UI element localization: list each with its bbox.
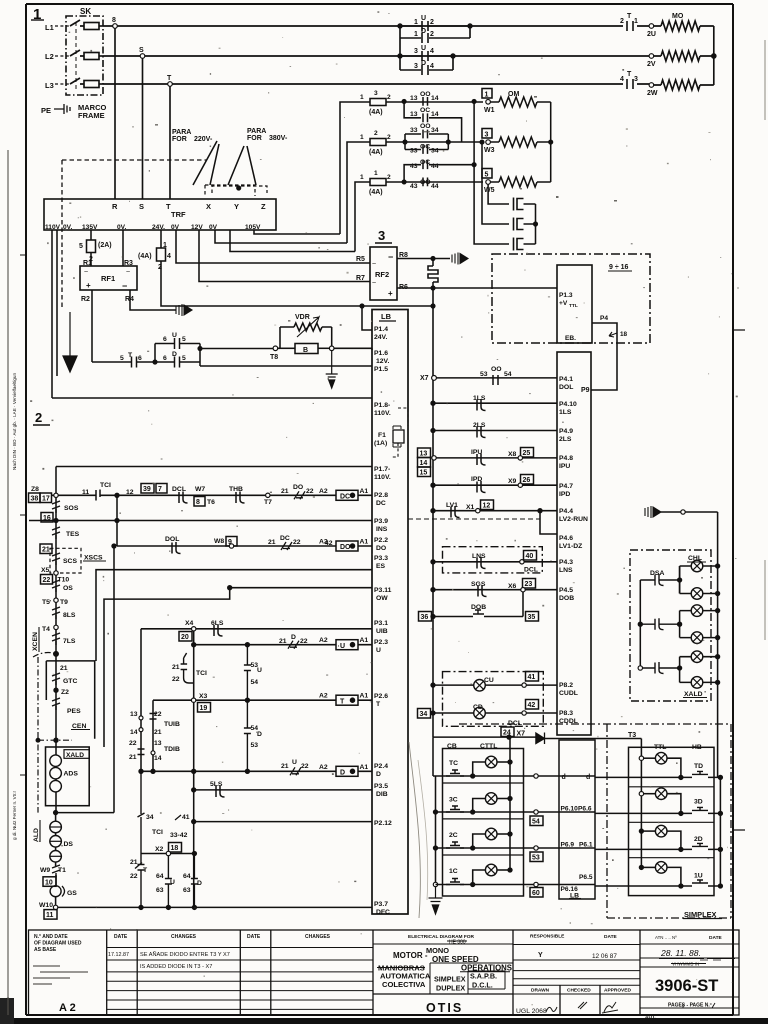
- svg-text:XCEN: XCEN: [32, 632, 39, 651]
- svg-text:54: 54: [251, 679, 259, 686]
- svg-text:64: 64: [156, 873, 164, 880]
- bus W5 down: [488, 184, 509, 204]
- contact GTC: [52, 673, 60, 685]
- svg-text:SK: SK: [80, 7, 91, 16]
- SK switch pole L1: [70, 20, 84, 26]
- right cells: [640, 944, 739, 1008]
- svg-text:34: 34: [431, 127, 439, 134]
- svg-text:6: 6: [163, 336, 167, 343]
- fuse F1 box: [393, 430, 404, 443]
- svg-text:Nach DIN · BO · Aut gb. · LAE: Nach DIN · BO · Aut gb. · LAE · Vervielf…: [12, 373, 17, 470]
- svg-text:1C: 1C: [449, 868, 458, 875]
- resistor OM row2: [490, 137, 550, 147]
- svg-text:53: 53: [480, 371, 488, 378]
- svg-text:Y: Y: [538, 952, 543, 959]
- drop DO aux: [113, 546, 115, 813]
- svg-text:9 ÷ 16: 9 ÷ 16: [609, 264, 629, 271]
- svg-text:CHECKED: CHECKED: [567, 988, 591, 994]
- svg-text:3D: 3D: [694, 799, 703, 806]
- svg-text:DC: DC: [376, 500, 386, 507]
- svg-text:TD: TD: [694, 763, 703, 770]
- indicator DS circles: [50, 821, 62, 833]
- svg-text:39: 39: [143, 486, 151, 493]
- svg-text:P4.4: P4.4: [559, 508, 573, 515]
- wire R8: [397, 258, 450, 260]
- row IPU: [432, 456, 436, 460]
- boxed 22 T10: [41, 575, 53, 585]
- svg-text:2D: 2D: [694, 836, 703, 843]
- row DOB: [419, 612, 432, 622]
- svg-text:(1A): (1A): [374, 440, 387, 447]
- svg-text:P4.3: P4.3: [559, 559, 573, 566]
- branch to P1.4: [362, 306, 372, 330]
- svg-text:X5: X5: [41, 567, 50, 574]
- svg-text:W7: W7: [195, 486, 205, 493]
- svg-text:TES: TES: [66, 531, 80, 538]
- svg-text:24V.: 24V.: [152, 224, 165, 231]
- middle connector LB box: [559, 740, 595, 899]
- node 2W: [649, 83, 654, 88]
- row D wire: [141, 770, 372, 772]
- svg-text:DOL: DOL: [559, 384, 573, 391]
- svg-text:SCS: SCS: [63, 558, 77, 565]
- svg-text:R7: R7: [356, 275, 365, 282]
- svg-text:(2A): (2A): [98, 242, 112, 249]
- svg-text:SIMPLEX: SIMPLEX: [684, 910, 717, 919]
- svg-text:LNS: LNS: [472, 553, 486, 560]
- svg-text:IS ADDED DIODE IN T3 - X7: IS ADDED DIODE IN T3 - X7: [140, 964, 212, 970]
- resistor OM row3: [490, 177, 550, 187]
- svg-text:TCI: TCI: [100, 482, 111, 489]
- svg-text:P1.4: P1.4: [374, 326, 388, 333]
- row UIB wire: [141, 629, 372, 772]
- svg-text:2U: 2U: [647, 31, 656, 38]
- bottom feed wire: [433, 737, 641, 738]
- title block outer: [29, 930, 740, 1015]
- svg-text:+: +: [86, 281, 91, 290]
- svg-text:P4: P4: [600, 315, 608, 322]
- svg-text:IPU: IPU: [559, 463, 570, 470]
- svg-text:54: 54: [532, 819, 540, 826]
- svg-text:60: 60: [532, 890, 540, 897]
- wire T down to TRF: [169, 86, 171, 199]
- svg-text:FRAME: FRAME: [78, 111, 105, 120]
- wire 135V to fuse 5: [90, 230, 92, 240]
- svg-text:SIMPLEX: SIMPLEX: [434, 975, 466, 984]
- lamp CHL2: [691, 588, 703, 600]
- svg-text:14: 14: [154, 755, 162, 762]
- diode T3-X7: [536, 733, 545, 745]
- svg-text:2LS: 2LS: [559, 436, 572, 443]
- svg-text:d: d: [562, 774, 566, 781]
- svg-text:W9: W9: [40, 867, 50, 874]
- svg-text:R: R: [112, 202, 118, 211]
- svg-text:22: 22: [306, 488, 314, 495]
- svg-text:2: 2: [430, 19, 434, 26]
- svg-text:26: 26: [523, 477, 531, 484]
- junction to GTC: [54, 652, 58, 656]
- svg-text:38: 38: [31, 496, 39, 503]
- svg-text:LV2-RUN: LV2-RUN: [559, 516, 588, 523]
- panel TTL box: [629, 747, 715, 895]
- svg-text:Z8: Z8: [31, 486, 39, 493]
- wire 0V to R5: [176, 230, 370, 263]
- contact TES: [52, 527, 60, 539]
- connector bus: [535, 204, 537, 244]
- chain through: [55, 749, 57, 813]
- F1 dashed link: [392, 408, 408, 457]
- svg-text:1: 1: [485, 92, 489, 99]
- svg-text:22: 22: [154, 711, 162, 718]
- svg-text:17: 17: [42, 496, 50, 503]
- svg-text:54: 54: [504, 371, 512, 378]
- svg-text:DC: DC: [280, 535, 290, 542]
- dash-dot CEN line: [38, 739, 72, 741]
- SK switch pole L2: [70, 50, 84, 56]
- svg-text:INS: INS: [376, 526, 388, 533]
- svg-text:P9: P9: [581, 387, 590, 394]
- svg-text:EB.: EB.: [565, 335, 576, 342]
- svg-text:A1: A1: [360, 693, 369, 700]
- dashed option wire 220V: [62, 159, 207, 161]
- boxed 54: [530, 816, 543, 826]
- SK fuse L3: [84, 81, 99, 88]
- svg-text:T6: T6: [207, 499, 215, 506]
- svg-text:A2: A2: [319, 539, 328, 546]
- svg-text:1LS: 1LS: [473, 395, 486, 402]
- svg-text:34: 34: [420, 711, 428, 718]
- row CD lamp: [418, 709, 431, 719]
- L3 lead-in dashes: [55, 83, 70, 85]
- svg-text:D: D: [340, 770, 345, 777]
- contact SOS: [52, 501, 60, 513]
- svg-text:21: 21: [130, 859, 138, 866]
- bus W1 down: [474, 101, 509, 244]
- row ES wire: [96, 570, 372, 661]
- svg-text:22: 22: [130, 873, 138, 880]
- boxed 13 14 15: [418, 448, 431, 458]
- svg-text:AS BASE: AS BASE: [34, 947, 57, 953]
- svg-text:APPROVED: APPROVED: [604, 988, 631, 994]
- svg-text:DO: DO: [293, 484, 303, 491]
- svg-text:2: 2: [430, 31, 434, 38]
- boxed 16: [41, 513, 53, 523]
- svg-text:DC: DC: [340, 494, 350, 501]
- svg-text:LV1-DZ: LV1-DZ: [559, 543, 582, 550]
- svg-text:P4.5: P4.5: [559, 587, 573, 594]
- svg-text:U: U: [257, 667, 262, 674]
- node T7: [266, 493, 270, 497]
- svg-text:13: 13: [410, 111, 418, 118]
- svg-text:P4.8: P4.8: [559, 455, 573, 462]
- svg-text:P3.3: P3.3: [374, 555, 388, 562]
- svg-text:ATN .. .. Nº: ATN .. .. Nº: [655, 935, 677, 940]
- fuse 5 (2A): [87, 240, 96, 253]
- svg-text:63: 63: [156, 887, 164, 894]
- svg-text:6: 6: [163, 355, 167, 362]
- svg-text:FOR: FOR: [247, 135, 262, 142]
- svg-text:1: 1: [360, 94, 364, 101]
- svg-text:43: 43: [410, 183, 418, 190]
- wire R6 to EB: [397, 287, 557, 289]
- svg-text:0V: 0V: [171, 224, 180, 231]
- svg-text:P2.4: P2.4: [374, 763, 388, 770]
- svg-text:12: 12: [126, 489, 134, 496]
- svg-text:12 06 87: 12 06 87: [592, 953, 617, 960]
- svg-text:22: 22: [172, 676, 180, 683]
- svg-text:UIB: UIB: [376, 628, 388, 635]
- svg-text:P8.2: P8.2: [559, 682, 573, 689]
- wire to P1.6: [334, 348, 372, 350]
- bus DC-DO left: [116, 495, 118, 546]
- svg-text:3: 3: [378, 228, 385, 243]
- svg-text:OS: OS: [63, 585, 73, 592]
- svg-text:U: U: [172, 332, 177, 339]
- dash-dot box XALD: [630, 550, 711, 701]
- svg-text:DATE: DATE: [114, 934, 128, 940]
- svg-text:P1.8-: P1.8-: [374, 402, 390, 409]
- svg-text:HE 300: HE 300: [449, 940, 466, 946]
- wire R4 to chassis: [130, 290, 176, 310]
- svg-text:MOTOR -: MOTOR -: [393, 951, 428, 960]
- node W3: [482, 129, 492, 139]
- main vertical bus X7: [432, 288, 434, 737]
- svg-text:TCI: TCI: [196, 670, 207, 677]
- dash-dot box CU/CD: [443, 672, 544, 727]
- svg-text:21: 21: [60, 665, 68, 672]
- wire P1.7 feed: [56, 467, 372, 494]
- svg-text:33: 33: [410, 148, 418, 155]
- svg-text:T9: T9: [60, 599, 68, 606]
- riser to fuse3: [355, 182, 366, 252]
- svg-text:A2: A2: [319, 637, 328, 644]
- svg-text:DOL: DOL: [165, 536, 179, 543]
- svg-text:13: 13: [410, 95, 418, 102]
- svg-text:3906-ST: 3906-ST: [655, 977, 718, 995]
- svg-text:X4: X4: [185, 620, 194, 627]
- svg-text:X9: X9: [508, 478, 517, 485]
- svg-text:5: 5: [120, 355, 124, 362]
- wire to P1.5: [200, 365, 372, 367]
- svg-text:A2: A2: [319, 764, 328, 771]
- svg-text:17.12.87: 17.12.87: [108, 952, 129, 958]
- svg-text:DFC: DFC: [376, 909, 390, 916]
- svg-text:U: U: [376, 647, 381, 654]
- motor star point wire: [713, 26, 715, 85]
- contact 7LS: [52, 633, 60, 645]
- svg-text:22: 22: [43, 577, 51, 584]
- svg-text:OM: OM: [508, 91, 519, 98]
- svg-text:U: U: [340, 643, 345, 650]
- svg-text:22: 22: [300, 638, 308, 645]
- svg-text:24V.: 24V.: [374, 334, 387, 341]
- svg-text:220V-: 220V-: [194, 136, 213, 143]
- svg-text:d: d: [586, 774, 590, 781]
- rectifier RF1 box: [80, 266, 137, 290]
- boxed 38 17: [29, 493, 41, 503]
- node 2U: [649, 24, 654, 29]
- svg-text:1: 1: [414, 19, 418, 26]
- svg-text:4: 4: [167, 253, 171, 260]
- svg-text:A1: A1: [360, 488, 369, 495]
- row LNS: [431, 560, 435, 564]
- riser to fuse2: [347, 142, 366, 243]
- svg-text:X3: X3: [199, 693, 208, 700]
- svg-text:110V: 110V: [45, 224, 61, 231]
- svg-text:W8: W8: [214, 538, 224, 545]
- svg-text:IPD: IPD: [559, 491, 570, 498]
- svg-text:TUIB: TUIB: [164, 721, 180, 728]
- svg-text:34: 34: [431, 148, 439, 155]
- wire 105V step: [254, 230, 340, 234]
- wire 0V down: [56, 230, 58, 376]
- svg-text:22: 22: [129, 740, 137, 747]
- svg-text:1: 1: [634, 18, 638, 25]
- responsible cells: [513, 945, 640, 995]
- svg-text:18: 18: [171, 845, 179, 852]
- title middle box: [513, 930, 640, 1015]
- row wires through connector: [559, 776, 595, 885]
- svg-text:P1.7-: P1.7-: [374, 466, 390, 473]
- svg-text:DATE: DATE: [604, 934, 618, 940]
- svg-text:8: 8: [112, 17, 116, 24]
- border tick left: [20, 255, 26, 775]
- svg-text:380V-: 380V-: [269, 135, 288, 142]
- svg-text:−: −: [122, 281, 127, 291]
- svg-text:14: 14: [130, 729, 138, 736]
- svg-text:N.° AND DATE: N.° AND DATE: [34, 934, 68, 940]
- svg-text:~: ~: [84, 269, 88, 276]
- lamp pair 2: [691, 605, 703, 617]
- svg-text:D.C.L.: D.C.L.: [472, 981, 493, 990]
- svg-text:P2.12: P2.12: [374, 820, 392, 827]
- svg-text:SOS: SOS: [64, 505, 79, 512]
- svg-text:A2: A2: [319, 693, 328, 700]
- contact 8LS: [52, 607, 60, 619]
- svg-text:P2.3: P2.3: [374, 639, 388, 646]
- svg-text:3: 3: [414, 48, 418, 55]
- svg-text:P6.5: P6.5: [579, 874, 593, 881]
- svg-text:P2.6: P2.6: [374, 693, 388, 700]
- svg-text:AUT.: AUT.: [645, 1015, 656, 1021]
- node T8: [273, 346, 278, 351]
- svg-text:41: 41: [182, 814, 190, 821]
- row INS wire: [29, 520, 372, 522]
- lamp pair 3: [691, 651, 703, 663]
- big arrow down: [63, 312, 77, 372]
- junction ALD: [54, 811, 58, 815]
- relay B box: [280, 347, 295, 349]
- wire L2: [103, 55, 649, 57]
- svg-text:105V: 105V: [245, 224, 261, 231]
- svg-text:OC: OC: [420, 144, 430, 151]
- indicator AOS circles: [50, 755, 62, 767]
- lamp CHL1: [691, 560, 703, 572]
- box GTC: [46, 661, 94, 739]
- svg-text:PAGES - PAGE N.º: PAGES - PAGE N.º: [668, 1003, 712, 1009]
- svg-text:12V.: 12V.: [376, 358, 389, 365]
- wire to T8: [200, 348, 273, 350]
- svg-text:P3.11: P3.11: [374, 587, 392, 594]
- svg-text:21: 21: [129, 754, 137, 761]
- svg-text:2LS: 2LS: [473, 422, 486, 429]
- svg-text:2W: 2W: [647, 90, 658, 97]
- svg-text:P8.3: P8.3: [559, 710, 573, 717]
- svg-text:U: U: [421, 15, 426, 22]
- svg-text:(4A): (4A): [369, 149, 383, 156]
- row DC wire: [52, 494, 373, 496]
- ground below B: [326, 351, 338, 388]
- svg-text:P6.10: P6.10: [561, 806, 579, 813]
- boxed 39 7: [141, 484, 154, 494]
- svg-text:22: 22: [301, 763, 309, 770]
- svg-text:18: 18: [620, 331, 628, 338]
- dash-dot XALD vertical: [37, 657, 39, 813]
- wire S down to TRF: [142, 58, 144, 199]
- svg-text:44: 44: [431, 183, 439, 190]
- svg-text:CHANGES: CHANGES: [305, 934, 331, 940]
- svg-text:TTL: TTL: [569, 303, 578, 309]
- row DO wire: [117, 545, 372, 547]
- svg-text:P2.8: P2.8: [374, 492, 388, 499]
- chassis arrow R8: [452, 253, 468, 265]
- node W1: [482, 89, 492, 99]
- resistor MO phase W: [654, 80, 714, 90]
- svg-text:T3: T3: [628, 732, 636, 739]
- svg-text:12V: 12V: [191, 224, 203, 231]
- maniobras cell: [430, 963, 513, 994]
- left margin vertical text: [5, 373, 17, 1000]
- connector pin 2: [514, 218, 536, 231]
- svg-text:3C: 3C: [449, 797, 458, 804]
- row IPD: [431, 483, 435, 487]
- svg-text:1: 1: [414, 31, 418, 38]
- parallel brackets: [155, 344, 200, 367]
- boxed 10: [43, 877, 56, 887]
- svg-text:DSA: DSA: [650, 570, 664, 577]
- svg-text:15: 15: [420, 470, 428, 477]
- dashed vertical option: [61, 160, 63, 310]
- svg-text:GTC: GTC: [63, 678, 77, 685]
- svg-text:DIB: DIB: [376, 791, 388, 798]
- svg-text:8LS: 8LS: [63, 612, 76, 619]
- riser to fuse1: [340, 102, 366, 234]
- svg-text:GS: GS: [67, 890, 77, 897]
- svg-text:P1.3: P1.3: [559, 292, 573, 299]
- svg-text:5: 5: [79, 243, 83, 250]
- svg-text:(4A): (4A): [369, 189, 383, 196]
- svg-text:DATE: DATE: [709, 935, 723, 941]
- svg-text:UGL 2068: UGL 2068: [516, 1008, 547, 1015]
- resistor on bus: [428, 260, 438, 286]
- svg-text:T7: T7: [264, 499, 272, 506]
- svg-text:VDR: VDR: [295, 314, 310, 321]
- svg-text:110V.: 110V.: [374, 474, 391, 481]
- boxed 21: [40, 544, 52, 554]
- svg-text:D: D: [257, 731, 262, 738]
- stub to P4.6: [540, 511, 557, 534]
- svg-text:TDIB: TDIB: [164, 746, 180, 753]
- svg-text:X7: X7: [420, 375, 429, 382]
- svg-text:OO: OO: [420, 123, 431, 130]
- svg-text:3: 3: [414, 63, 418, 70]
- svg-text:DUPLEX: DUPLEX: [436, 984, 465, 993]
- svg-text:OC: OC: [420, 159, 430, 166]
- svg-text:CHANGES: CHANGES: [171, 934, 197, 940]
- svg-text:P4.6: P4.6: [559, 535, 573, 542]
- triangle link 220V: [193, 141, 219, 185]
- wire R2 down: [91, 290, 93, 362]
